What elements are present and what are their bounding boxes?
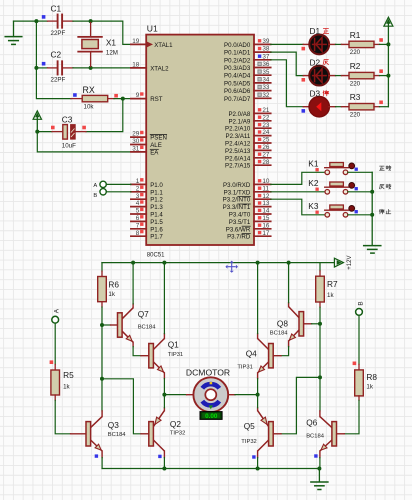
svg-text:22PF: 22PF (51, 77, 66, 84)
junction motor left (162, 393, 166, 397)
junction crystal-bottom (89, 66, 93, 70)
svg-text:1: 1 (136, 178, 140, 185)
svg-text:25: 25 (262, 137, 270, 144)
D3 pin marker (302, 109, 306, 113)
svg-text:BC184: BC184 (108, 432, 127, 438)
Q3 pin marker blue (95, 454, 98, 457)
svg-text:P1.0: P1.0 (150, 182, 163, 189)
wire K1 to ground bus (348, 171, 372, 173)
svg-text:220: 220 (350, 80, 361, 87)
wire motor left pin (164, 394, 193, 396)
pin 18 XTAL2 (131, 62, 169, 73)
junction rail Q7 (131, 261, 135, 265)
Q5 pin marker blue (252, 455, 255, 458)
C3 pin marker red left (51, 126, 55, 130)
svg-text:P1.5: P1.5 (150, 219, 163, 226)
svg-text:15: 15 (262, 215, 270, 222)
junction node1 (34, 19, 38, 23)
svg-text:22: 22 (262, 114, 270, 121)
motor rpm display (200, 412, 222, 420)
label net forward (379, 166, 384, 170)
svg-text:P0.0/AD0: P0.0/AD0 (224, 42, 251, 49)
svg-text:27: 27 (262, 151, 270, 158)
svg-text:Q6: Q6 (306, 417, 317, 427)
RX pin marker blue (73, 93, 77, 97)
Q6 pin marker blue (314, 454, 317, 457)
svg-text:16: 16 (262, 222, 270, 229)
wire R6 to Q7 base node (101, 307, 103, 325)
resistor R1 (349, 41, 388, 47)
svg-text:24: 24 (262, 129, 270, 136)
pin 9 RST (131, 92, 163, 103)
svg-text:80C51: 80C51 (147, 252, 165, 258)
pin 31 EA (131, 146, 159, 157)
svg-text:Q3: Q3 (108, 420, 119, 430)
svg-text:19: 19 (132, 38, 140, 45)
wire Q8 emitter to Q4 base (273, 341, 288, 356)
svg-text:P3.4/T0: P3.4/T0 (229, 212, 251, 219)
pin 34 P0.5/AD5 (224, 77, 271, 88)
svg-text:P0.1/AD1: P0.1/AD1 (224, 50, 251, 57)
push button K2 (325, 182, 355, 194)
svg-text:K2: K2 (308, 178, 319, 188)
crystal X1 (78, 23, 102, 67)
resistor RX (71, 95, 131, 101)
origin marker crosshair (225, 261, 238, 273)
capacitor C3 electrolytic (37, 125, 86, 140)
label net stop (379, 209, 384, 214)
wire R7 to Q8 base node (319, 307, 321, 324)
svg-text:21: 21 (262, 107, 270, 114)
resistor R3 (349, 104, 388, 110)
wire Q1 emitter to motor node (163, 373, 165, 395)
svg-text:12: 12 (262, 193, 270, 200)
svg-text:17: 17 (262, 230, 270, 237)
svg-text:X1: X1 (106, 37, 117, 47)
pin 1 P1.0 (131, 178, 164, 189)
svg-text:P2.2/A10: P2.2/A10 (225, 126, 251, 133)
wire RST to C3 (86, 99, 123, 132)
wire P3.2 to K3 (271, 199, 325, 215)
svg-text:P3.2/INT0: P3.2/INT0 (223, 197, 251, 204)
svg-text:C2: C2 (51, 50, 62, 60)
svg-text:P3.5/T1: P3.5/T1 (229, 219, 251, 226)
wire R5 to Q3 base (55, 400, 86, 433)
pin 6 P1.5 (131, 215, 164, 226)
wire R8 to Q6 base (337, 400, 360, 433)
C3 pin marker red right (82, 126, 86, 130)
K2 pin marker red (315, 188, 318, 191)
ground symbol K buttons (364, 246, 381, 254)
svg-text:R8: R8 (366, 372, 377, 382)
resistor R6 (98, 271, 107, 307)
svg-text:P0.7/AD7: P0.7/AD7 (224, 96, 251, 103)
svg-text:P1.6: P1.6 (150, 226, 163, 233)
svg-text:22PF: 22PF (51, 30, 66, 37)
svg-text:11: 11 (262, 185, 269, 192)
svg-text:38: 38 (262, 46, 270, 53)
svg-text:6: 6 (136, 215, 140, 222)
svg-text:B: B (93, 193, 97, 199)
svg-text:D2: D2 (310, 57, 321, 67)
wire node to Q6 collector (319, 377, 321, 416)
wire Q4 collector to rail (257, 263, 259, 339)
RX pin marker red (114, 94, 118, 98)
svg-text:PSEN: PSEN (150, 135, 167, 142)
svg-text:29: 29 (132, 131, 140, 138)
K3 pin marker blue (355, 210, 358, 213)
wire power node to EA pin (37, 132, 131, 152)
svg-text:R6: R6 (108, 280, 119, 290)
svg-text:8: 8 (136, 230, 140, 237)
transistor Q2 (149, 411, 165, 451)
svg-text:10uF: 10uF (62, 143, 76, 150)
svg-text:28: 28 (262, 159, 270, 166)
svg-text:0.00: 0.00 (205, 413, 218, 420)
ground symbol top-left (5, 21, 22, 44)
svg-text:220: 220 (350, 111, 361, 118)
svg-text:B: B (357, 301, 364, 305)
pin 17 P3.7/RD (227, 230, 271, 241)
pin 14 P3.4/T0 (229, 208, 271, 219)
svg-text:A: A (54, 308, 61, 313)
wire +12V top rail (102, 262, 334, 264)
svg-text:1k: 1k (63, 384, 70, 391)
wire Q2 collector to ground rail (163, 451, 165, 469)
wire node1 vertical to RX corner (36, 21, 71, 99)
svg-text:K1: K1 (308, 159, 319, 169)
K1 pin marker blue (355, 168, 358, 171)
pin 35 P0.4/AD4 (224, 69, 271, 80)
junction rail Q4 (256, 261, 260, 265)
wire B to R8 (358, 315, 360, 364)
svg-text:12M: 12M (106, 49, 118, 56)
svg-text:37: 37 (262, 53, 270, 60)
svg-text:220: 220 (350, 49, 361, 56)
svg-text:+12V: +12V (347, 256, 353, 270)
D1 pin marker (302, 47, 306, 51)
junction K2 bus (370, 190, 374, 194)
svg-text:R5: R5 (63, 370, 74, 380)
wire Q7 collector to rail (132, 263, 134, 308)
power terminal +12V arrow (334, 258, 343, 267)
wire B to P1.1 (106, 191, 131, 193)
wire 1 LED to R1 (329, 43, 349, 45)
svg-text:31: 31 (132, 146, 140, 153)
power terminal VCC reset (33, 111, 41, 132)
wire Q5 collector to ground rail (257, 451, 259, 469)
pin 13 P3.3/INT1 (223, 200, 271, 211)
svg-text:D1: D1 (310, 26, 321, 36)
svg-text:P0.3/AD3: P0.3/AD3 (224, 65, 251, 72)
transistor Q7 (118, 308, 134, 342)
pin 5 P1.4 (131, 208, 164, 219)
resistor R8 (355, 364, 364, 400)
svg-text:DCMOTOR: DCMOTOR (186, 367, 230, 377)
wire 3 LED to R3 (329, 106, 349, 108)
pin 29 PSEN (131, 131, 167, 142)
motor DCMOTOR (193, 377, 228, 412)
pin 4 P1.3 (131, 200, 164, 211)
wire Q7 base (102, 324, 118, 326)
wire Q2 emitter to motor node (163, 395, 165, 411)
terminal B bridge (356, 301, 365, 315)
svg-text:33: 33 (262, 84, 270, 91)
svg-text:P3.3/INT1: P3.3/INT1 (223, 204, 251, 211)
wire A to P1.0 (106, 183, 131, 185)
wire Q7 base node down (101, 325, 103, 379)
wire Q4 emitter to motor node (257, 373, 259, 395)
svg-text:23: 23 (262, 122, 270, 129)
junction VCC R1 (386, 42, 390, 46)
wire Q1 collector to rail (163, 263, 165, 339)
wire P0 to D2 (271, 52, 304, 76)
R5 pin marker red (50, 360, 54, 364)
wire Q8 collector to rail (288, 263, 290, 307)
transistor Q3 (86, 417, 102, 451)
svg-text:3: 3 (136, 193, 140, 200)
svg-text:26: 26 (262, 144, 270, 151)
junction rail Q1 (162, 261, 166, 265)
pin 37 P0.2/AD2 (224, 53, 271, 64)
wire cross-couple right to Q5 base (273, 377, 320, 433)
C1 pin marker blue (42, 15, 46, 19)
K1 pin marker red (315, 168, 318, 171)
wire Q5 emitter to motor node (257, 395, 259, 411)
resistor R5 (51, 365, 60, 401)
svg-text:U1: U1 (147, 24, 158, 34)
svg-text:10k: 10k (84, 103, 95, 110)
junction VCC R2 (386, 74, 390, 78)
pin 25 P2.4/A12 (225, 137, 271, 148)
terminal A input (93, 181, 106, 189)
junction node X2 right (318, 375, 322, 379)
pin 11 P3.1/TXD (224, 185, 271, 196)
svg-text:K3: K3 (308, 201, 319, 211)
pin 33 P0.6/AD6 (224, 84, 271, 95)
junction ground Q5 (256, 467, 260, 471)
pin 19 XTAL1 (131, 38, 173, 49)
wire K3 to ground bus (348, 214, 372, 216)
wire node to Q3 collector (101, 379, 103, 417)
pin 36 P0.3/AD3 (224, 61, 271, 72)
svg-text:P1.3: P1.3 (150, 204, 163, 211)
svg-text:P2.4/A12: P2.4/A12 (225, 141, 251, 148)
svg-text:30: 30 (132, 138, 140, 145)
junction node X1 left (100, 377, 104, 381)
wire VCC rail right (387, 44, 389, 106)
junction Q8 base (318, 322, 322, 326)
wire rail to R7 (319, 263, 321, 271)
pin 24 P2.3/A11 (225, 129, 270, 140)
wire K ground bus vertical (371, 172, 373, 245)
wire Q8 base (304, 323, 320, 325)
wire Q7 emitter to Q1 base (133, 342, 149, 356)
svg-text:9: 9 (136, 92, 140, 99)
svg-text:10: 10 (262, 178, 270, 185)
wire rail to R6 (101, 263, 103, 272)
svg-text:P1.2: P1.2 (150, 197, 163, 204)
svg-text:18: 18 (132, 62, 140, 69)
svg-text:P0.5/AD5: P0.5/AD5 (224, 80, 251, 87)
svg-text:R3: R3 (350, 92, 361, 102)
transistor Q1 (149, 339, 165, 373)
push button K3 (325, 205, 355, 217)
wire Q3 emitter to ground rail (101, 451, 103, 469)
svg-text:4: 4 (136, 200, 140, 207)
Q2 pin marker blue (158, 455, 161, 458)
junction RST node (121, 97, 125, 101)
pin 32 P0.7/AD7 (224, 92, 271, 103)
svg-text:P0.6/AD6: P0.6/AD6 (224, 88, 251, 95)
svg-text:RST: RST (150, 96, 163, 103)
pin 2 P1.1 (131, 185, 164, 196)
svg-text:P2.3/A11: P2.3/A11 (225, 133, 250, 140)
resistor R2 (349, 72, 388, 78)
svg-text:34: 34 (262, 77, 270, 84)
LED D2 (309, 66, 329, 86)
pin 38 P0.1/AD1 (224, 46, 271, 57)
junction node C2-left (34, 66, 38, 70)
wire A to R5 (54, 323, 56, 364)
junction C3-left node (35, 130, 39, 134)
svg-text:XTAL1: XTAL1 (154, 42, 173, 49)
wire C1 to crystal node (73, 20, 91, 22)
junction ground Q2 (162, 467, 166, 471)
transistor Q4 (258, 339, 274, 373)
C2 pin marker blue (42, 62, 46, 66)
wire Q6 emitter to ground rail (319, 451, 321, 469)
power terminal VCC top-right (384, 17, 393, 44)
svg-text:D3: D3 (310, 89, 321, 99)
svg-text:XTAL2: XTAL2 (150, 65, 169, 72)
svg-text:P0.2/AD2: P0.2/AD2 (224, 57, 251, 64)
pin 16 P3.6/WR (226, 222, 271, 233)
wire motor right pin (228, 394, 257, 396)
svg-text:BC184: BC184 (270, 331, 289, 337)
svg-text:P2.0/A8: P2.0/A8 (228, 111, 250, 118)
svg-text:14: 14 (262, 208, 270, 215)
svg-text:Q1: Q1 (168, 340, 179, 350)
svg-text:P0.4/AD4: P0.4/AD4 (224, 73, 251, 80)
transistor Q8 (289, 307, 304, 341)
pin 30 ALE (131, 138, 162, 149)
pin 39 P0.0/AD0 (224, 38, 271, 49)
svg-text:2: 2 (136, 185, 140, 192)
transistor Q5 (258, 411, 274, 451)
svg-text:1k: 1k (366, 384, 373, 391)
wire P3.1 to K2 (271, 191, 325, 193)
svg-text:ALE: ALE (150, 142, 162, 149)
svg-text:P3.7/RD: P3.7/RD (227, 234, 251, 241)
pin 15 P3.5/T1 (229, 215, 271, 226)
svg-text:R1: R1 (350, 30, 361, 40)
svg-text:P2.1/A9: P2.1/A9 (228, 118, 250, 125)
svg-text:C3: C3 (62, 114, 73, 124)
label D2 chinese (323, 60, 328, 65)
svg-text:5: 5 (136, 208, 140, 215)
svg-text:TIP31: TIP31 (168, 352, 183, 358)
svg-text:Q2: Q2 (170, 419, 181, 429)
svg-text:TIP32: TIP32 (241, 439, 256, 445)
capacitor C2 (36, 61, 73, 74)
pin 8 P1.7 (131, 230, 164, 241)
svg-text:BC184: BC184 (138, 325, 157, 331)
label D3 chinese (323, 90, 329, 95)
svg-text:7: 7 (136, 222, 140, 229)
LED D3 (309, 97, 329, 117)
svg-text:Q5: Q5 (244, 421, 255, 431)
pin 28 P2.7/A15 (225, 159, 271, 170)
svg-text:EA: EA (150, 149, 159, 156)
pin 3 P1.2 (131, 193, 164, 204)
wire crystal node to XTAL1 pin (91, 21, 131, 44)
pin 21 P2.0/A8 (228, 107, 270, 118)
svg-text:P3.6/WR: P3.6/WR (226, 226, 251, 233)
pin 22 P2.1/A9 (228, 114, 270, 125)
transistor Q6 (320, 417, 337, 451)
svg-text:13: 13 (262, 200, 270, 207)
junction rail Q8 (287, 261, 291, 265)
svg-text:TIP31: TIP31 (237, 365, 252, 371)
K3 pin marker red (315, 211, 318, 214)
LED D1 (309, 35, 329, 55)
wire P0 to D1 (271, 43, 304, 45)
svg-text:36: 36 (262, 61, 270, 68)
svg-text:35: 35 (262, 69, 270, 76)
svg-text:R7: R7 (327, 279, 338, 289)
svg-text:P2.7/A15: P2.7/A15 (225, 163, 251, 170)
terminal B input (93, 189, 106, 199)
svg-text:P1.4: P1.4 (150, 212, 163, 219)
pin 7 P1.6 (131, 222, 164, 233)
microcontroller U1 80C51 body (146, 35, 254, 245)
pin 27 P2.6/A14 (225, 151, 271, 162)
wire P3.0 to K1 (271, 172, 325, 184)
svg-text:TIP32: TIP32 (170, 431, 185, 437)
label net reverse (379, 185, 384, 189)
svg-text:C1: C1 (51, 4, 62, 14)
junction Q7 base (100, 323, 104, 327)
R3 pin marker red (379, 101, 383, 105)
wire K2 to ground bus (348, 191, 372, 193)
label D1 chinese (323, 29, 329, 34)
svg-text:RX: RX (83, 85, 95, 95)
svg-text:1k: 1k (327, 292, 334, 299)
pin 10 P3.0/RXD (223, 178, 271, 189)
pin 12 P3.2/INT0 (223, 193, 271, 204)
wire ground to node1 (14, 20, 37, 22)
wire cross-couple left to Q2 base (102, 379, 149, 434)
pin 23 P2.2/A10 (225, 122, 271, 133)
wire P0 to D3 (271, 60, 304, 107)
svg-text:Q4: Q4 (246, 349, 257, 359)
svg-text:P3.0/RXD: P3.0/RXD (223, 182, 251, 189)
R2 pin marker red (379, 69, 383, 73)
resistor R7 (316, 271, 325, 307)
junction crystal-top (89, 19, 93, 23)
pin 26 P2.5/A13 (225, 144, 271, 155)
svg-text:P1.1: P1.1 (150, 189, 163, 196)
svg-text:A: A (93, 183, 97, 189)
svg-text:P1.7: P1.7 (150, 234, 163, 241)
wire ground bottom rail (102, 468, 319, 470)
svg-text:39: 39 (262, 38, 270, 45)
junction K3 bus (370, 213, 374, 217)
push button K1 (325, 163, 355, 175)
junction ground Q6 (317, 467, 321, 471)
svg-text:Q8: Q8 (277, 319, 288, 329)
